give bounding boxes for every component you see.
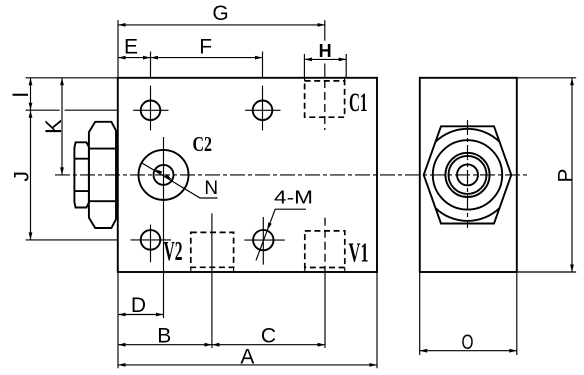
svg-text:4-M: 4-M [274, 187, 313, 208]
svg-text:F: F [199, 35, 212, 58]
svg-text:B: B [157, 324, 171, 347]
svg-text:C2: C2 [193, 132, 213, 156]
svg-text:A: A [240, 346, 254, 369]
svg-text:H: H [319, 41, 332, 61]
svg-text:E: E [124, 35, 138, 58]
svg-text:D: D [131, 294, 146, 317]
svg-text:N: N [204, 178, 218, 199]
svg-text:K: K [41, 119, 66, 134]
svg-text:O: O [462, 331, 474, 354]
svg-text:G: G [212, 2, 228, 25]
svg-text:V2: V2 [164, 236, 183, 266]
svg-text:I: I [8, 92, 33, 98]
svg-text:C: C [261, 324, 276, 347]
svg-text:P: P [555, 168, 578, 182]
svg-text:J: J [11, 171, 34, 182]
svg-text:C1: C1 [349, 88, 368, 117]
svg-text:V1: V1 [349, 238, 369, 268]
